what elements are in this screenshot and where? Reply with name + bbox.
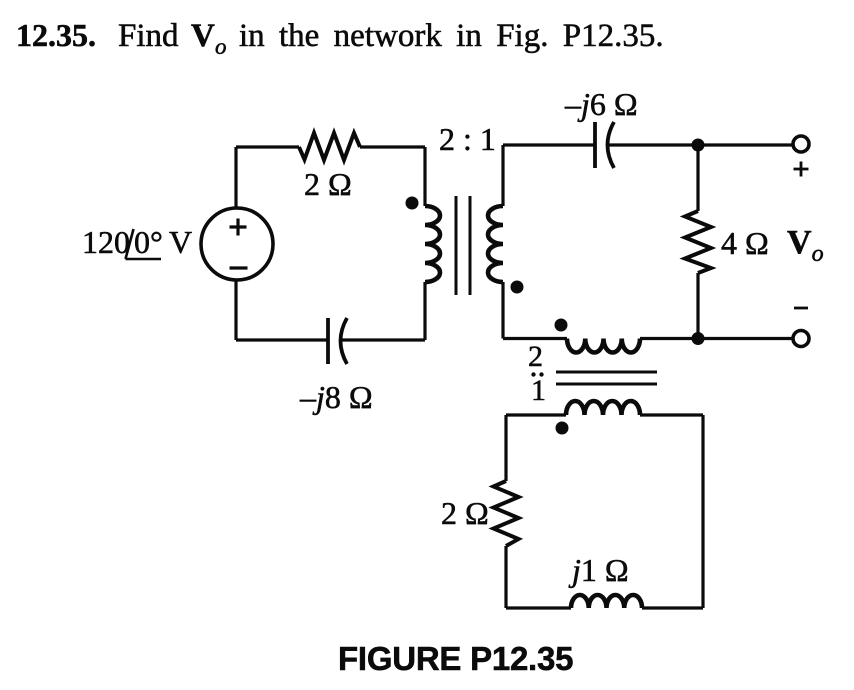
wire: middle loop bottom: [503, 337, 793, 340]
resistor 2ohm top: [299, 133, 360, 160]
svg-text:o: o: [215, 34, 227, 59]
resistor 4 ohm: [685, 211, 711, 273]
svg-text:2 Ω: 2 Ω: [441, 495, 489, 531]
label 2 over 1 (T2 ratio): [528, 340, 546, 407]
svg-text:Vo: Vo: [787, 224, 824, 267]
wire: bottom loop bottom: [506, 606, 703, 609]
capacitor -j8 ohm: [328, 318, 347, 364]
svg-text:–j6 Ω: –j6 Ω: [564, 86, 638, 122]
transformer T1 secondary coil: [488, 206, 503, 282]
transformer T2 top winding (on middle loop bottom wire): [567, 339, 640, 353]
svg-text:V: V: [191, 18, 215, 54]
T2 bottom polarity dot: [556, 422, 569, 435]
label 2:1 (T1 ratio): [439, 121, 496, 157]
wire: left loop left edge: [234, 147, 237, 340]
T2 core: [556, 372, 657, 384]
node junction bottom (dot): [692, 332, 705, 345]
wire: bottom loop top: [506, 413, 703, 416]
wire: left loop top: [236, 145, 425, 148]
voltage source 120/0 V: [201, 208, 273, 280]
svg-text:1: 1: [531, 374, 546, 407]
svg-text:2: 2: [528, 340, 543, 373]
label 2 ohm (bottom): [441, 495, 489, 531]
svg-text:in the network in Fig. P12.35.: in the network in Fig. P12.35.: [239, 18, 664, 54]
label 4 ohm: [721, 225, 769, 261]
svg-text:120: 120: [82, 224, 130, 260]
T2 top polarity dot: [555, 319, 568, 332]
wire: left loop right edge: [423, 147, 426, 340]
inductor j1 ohm: [571, 595, 642, 608]
T1 secondary polarity dot: [511, 281, 524, 294]
svg-text:–j8 Ω: –j8 Ω: [299, 379, 373, 415]
resistor 2 ohm (bottom loop): [494, 481, 519, 546]
T1 core: [456, 196, 470, 295]
svg-text:Find: Find: [118, 18, 179, 54]
svg-text:12.35.: 12.35.: [16, 17, 96, 53]
label 2 ohm (top resistor): [304, 166, 352, 202]
transformer T2 bottom winding (on bottom loop top wire): [566, 401, 640, 415]
problem statement text: [16, 17, 664, 59]
wire: middle loop left edge: [501, 145, 504, 339]
svg-text:V: V: [169, 224, 192, 260]
label 120 angle 0 V: [82, 224, 192, 260]
terminal bottom (open circle): [793, 331, 809, 347]
label -j8 ohm: [299, 379, 373, 415]
capacitor -j6 ohm: [595, 122, 614, 168]
wire: right branch vertical: [696, 145, 699, 339]
wire: bottom loop left edge: [504, 415, 507, 608]
svg-text:FIGURE P12.35: FIGURE P12.35: [338, 640, 573, 677]
T1 primary polarity dot: [406, 197, 419, 210]
label j1 ohm: [568, 552, 629, 588]
svg-text:0°: 0°: [134, 224, 163, 260]
minus sign: [794, 307, 808, 310]
label -j6 ohm: [564, 86, 638, 122]
node junction top (dot): [692, 139, 705, 152]
plus sign: [794, 162, 809, 177]
figure caption: [338, 640, 573, 677]
svg-text:2 Ω: 2 Ω: [304, 166, 352, 202]
label Vo: [787, 224, 824, 267]
terminal top (open circle): [793, 136, 809, 152]
wire: bottom loop right edge: [701, 415, 704, 608]
transformer T1 primary coil: [425, 206, 440, 282]
svg-text:2 : 1: 2 : 1: [439, 121, 496, 157]
svg-text:4 Ω: 4 Ω: [721, 225, 769, 261]
wire: middle loop top: [503, 143, 793, 146]
svg-text:j1 Ω: j1 Ω: [568, 552, 629, 588]
wire: left loop bottom: [236, 338, 425, 341]
